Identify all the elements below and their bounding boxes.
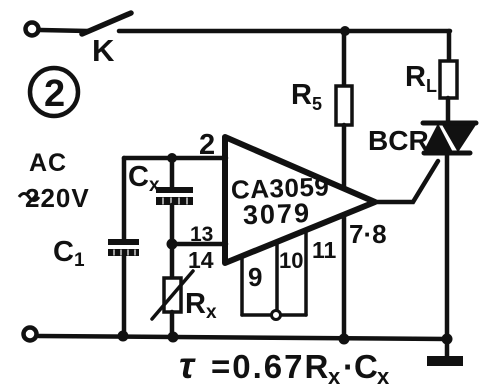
- wire (top rail): [119, 29, 450, 34]
- ground: [427, 339, 463, 366]
- wire (bottom rail): [39, 336, 447, 339]
- AC tilde: [19, 194, 39, 201]
- node: [168, 332, 179, 343]
- svg-text:AC: AC: [29, 149, 67, 177]
- svg-text:9: 9: [248, 262, 262, 292]
- resistor R5: [336, 31, 352, 188]
- wire (pin 2): [124, 156, 226, 161]
- resistor RL: [440, 61, 457, 122]
- node (top rail / R5 junction): [340, 26, 350, 36]
- node: [118, 331, 129, 342]
- figure number 2 (circled): [30, 68, 78, 116]
- triac BCR: [423, 123, 476, 153]
- node (pins 13-14): [167, 239, 178, 250]
- svg-text:BCR: BCR: [368, 125, 429, 156]
- svg-text:10: 10: [279, 248, 303, 273]
- terminal (bottom-left input): [24, 328, 37, 341]
- svg-text:K: K: [92, 33, 115, 68]
- wire (gate from op-amp output): [375, 161, 438, 202]
- capacitor C1: [108, 158, 139, 337]
- wire (triac cathode down): [445, 153, 450, 339]
- wire (top-right corner down): [447, 31, 452, 61]
- capacitor Cx: [156, 158, 193, 244]
- resistor Rx (variable): [152, 244, 193, 337]
- wire (pins 7-8 down): [342, 216, 347, 339]
- node: [339, 334, 350, 345]
- svg-text:τ=0.67Rx·Cx: τ=0.67Rx·Cx: [179, 345, 390, 386]
- svg-text:7·8: 7·8: [349, 219, 387, 249]
- wire (pin 9): [240, 256, 244, 315]
- svg-text:11: 11: [312, 237, 337, 263]
- wire (pin 10): [275, 242, 279, 315]
- terminal (top-left input): [26, 23, 39, 36]
- op-amp U1 CA3059/3079: [225, 137, 375, 263]
- wire (pin 11): [304, 230, 308, 315]
- svg-text:3079: 3079: [242, 198, 311, 230]
- wire: [40, 30, 88, 31]
- svg-text:14: 14: [188, 247, 214, 273]
- node: [167, 153, 177, 163]
- svg-text:13: 13: [190, 223, 213, 246]
- svg-text:220V: 220V: [25, 183, 90, 213]
- svg-text:2: 2: [199, 129, 215, 161]
- node: [442, 334, 453, 345]
- wire (pins 9-10-11 common bar): [242, 313, 306, 317]
- node (open circle on common bar): [272, 311, 281, 320]
- wire (pins 13/14): [172, 242, 226, 247]
- svg-text:2: 2: [44, 73, 65, 115]
- switch K blade: [82, 13, 131, 34]
